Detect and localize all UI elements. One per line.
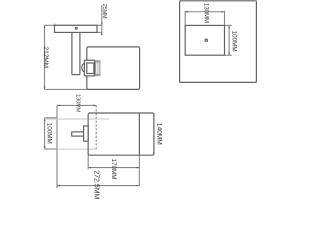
svg-text:25MM: 25MM [101,4,107,19]
svg-text:100MM: 100MM [46,123,53,144]
svg-text:272.5MM: 272.5MM [93,170,100,199]
svg-text:100MM: 100MM [231,31,238,52]
svg-text:130MM: 130MM [74,94,80,112]
svg-text:170MM: 170MM [110,159,117,180]
svg-text:140MM: 140MM [155,123,162,145]
svg-text:212MM: 212MM [42,46,49,68]
svg-text:130MM: 130MM [203,3,209,23]
